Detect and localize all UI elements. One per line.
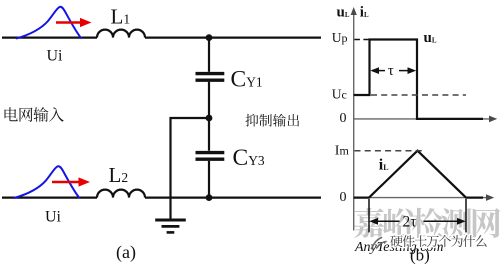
svg-text:Im: Im <box>335 144 350 159</box>
svg-text:0: 0 <box>340 190 347 205</box>
svg-text:Up: Up <box>332 30 348 45</box>
svg-text:0: 0 <box>340 111 347 126</box>
svg-text:2τ: 2τ <box>403 214 417 231</box>
svg-text:Ui: Ui <box>45 209 62 226</box>
svg-text:Uc: Uc <box>332 86 347 101</box>
svg-text:τ: τ <box>388 63 394 79</box>
svg-text:(a): (a) <box>116 242 136 263</box>
svg-text:Ui: Ui <box>47 48 64 65</box>
